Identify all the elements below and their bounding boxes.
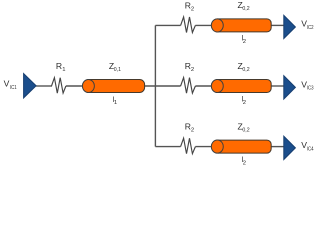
l2 top label [242, 34, 246, 45]
svg-text:2: 2 [191, 67, 194, 73]
wire bottom branch: T-line 4 to VIC4 [271, 146, 284, 148]
transmission line Z0,2 (top cylinder) [211, 19, 271, 32]
transmission line Z0,1 (cylinder) [82, 79, 144, 92]
svg-text:IC1: IC1 [10, 85, 17, 91]
l2 bottom label [242, 155, 246, 166]
svg-text:0,1: 0,1 [114, 67, 121, 73]
svg-text:0,2: 0,2 [242, 6, 249, 12]
node VIC2 label [301, 19, 313, 31]
R1 value label [56, 61, 66, 73]
l2 middle label [242, 95, 246, 106]
Z0,2 bottom label [238, 121, 250, 133]
wire main: source to R1 [36, 85, 52, 87]
R2 middle label [185, 61, 194, 73]
svg-text:0,2: 0,2 [242, 127, 249, 133]
resistor R2 (bottom) [181, 138, 196, 154]
svg-text:1: 1 [114, 100, 117, 106]
wire bottom branch: junction to R2 [155, 146, 180, 148]
source VIC1 (triangle) [24, 74, 36, 98]
wire main: R1 to T-line 1 [66, 85, 85, 87]
svg-text:R: R [56, 61, 62, 71]
wire bottom branch: R2 to T-line 4 [195, 146, 213, 148]
node VIC1 label [4, 78, 17, 91]
svg-text:2: 2 [191, 6, 194, 12]
transmission line Z0,2 (bottom cylinder) [211, 140, 271, 153]
wire middle branch: R2 to T-line 3 [195, 85, 213, 87]
svg-text:1: 1 [62, 67, 65, 73]
load VIC4 (triangle) [284, 136, 296, 159]
resistor R2 (middle) [181, 78, 196, 94]
R2 top label [185, 0, 194, 12]
Z0,1 label [109, 61, 121, 73]
svg-text:IC2: IC2 [307, 25, 314, 31]
wire: junction vertical bus [154, 25, 156, 146]
load VIC2 (triangle) [284, 15, 296, 38]
R2 bottom label [185, 121, 194, 133]
svg-text:V: V [4, 78, 10, 88]
node VIC4 label [301, 140, 314, 152]
wire top branch: junction to R2 [155, 24, 180, 26]
Z0,2 top label [238, 0, 250, 12]
svg-text:2: 2 [191, 127, 194, 133]
transmission line Z0,2 (middle cylinder) [211, 79, 271, 92]
svg-text:0,2: 0,2 [242, 67, 249, 73]
load VIC3 (triangle) [284, 76, 296, 99]
svg-text:2: 2 [243, 100, 246, 106]
wire middle branch: T-line 3 to VIC3 [271, 85, 284, 87]
svg-text:IC4: IC4 [307, 146, 314, 152]
resistor R2 (top) [181, 17, 196, 33]
resistor R1 [52, 78, 66, 93]
svg-text:2: 2 [243, 39, 246, 45]
svg-text:2: 2 [243, 160, 246, 166]
l1 length label [113, 95, 118, 106]
wire main: T-line 1 through junction to middle R2 [145, 85, 181, 87]
svg-text:IC3: IC3 [307, 86, 314, 92]
wire top branch: T-line 2 to VIC2 [271, 24, 284, 26]
node VIC3 label [301, 79, 314, 91]
wire top branch: R2 to T-line 2 [195, 24, 213, 26]
Z0,2 middle label [238, 61, 250, 73]
